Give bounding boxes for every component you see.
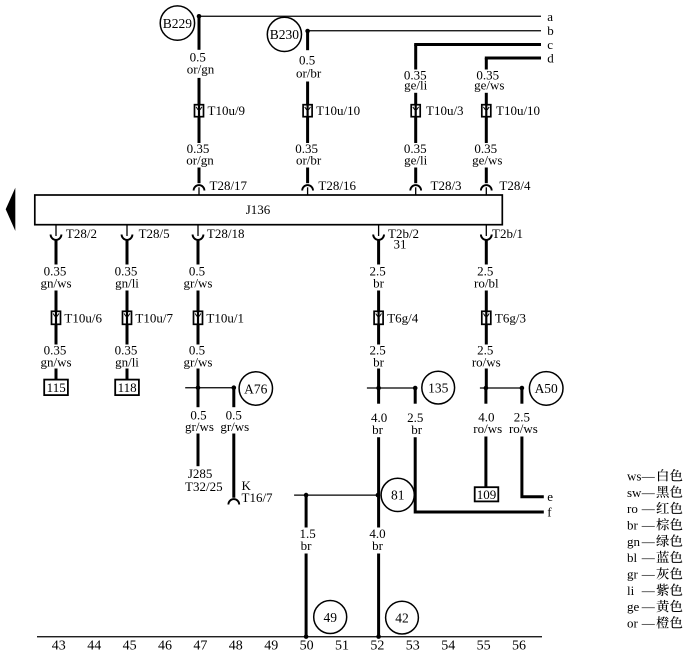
svg-text:A76: A76 (244, 381, 267, 396)
node junction T28/18 branch (196, 385, 201, 390)
wire 0.5 gr/ws to J285 lower (197, 434, 200, 467)
wire 2.5 br to terminal f (415, 437, 544, 512)
wire 0.5 or/gn upper segment (198, 16, 201, 50)
svg-text:—: — (641, 599, 656, 614)
wire 0.35 ge/ws upper segment (485, 58, 488, 70)
wire to ground 115 (55, 369, 58, 380)
wire to ground 118 (126, 369, 129, 380)
wire 0.5 gr/ws to K lower (232, 434, 235, 498)
junction line at node 135 branch (367, 387, 415, 389)
plug socket T28/2 (51, 225, 62, 240)
svg-text:T10u/9: T10u/9 (208, 103, 246, 118)
wire 4.0 br middle segment (377, 437, 380, 527)
svg-text:T6g/3: T6g/3 (495, 310, 526, 325)
wire 0.5 gr/ws to K upper (232, 388, 235, 408)
svg-text:T10u/10: T10u/10 (316, 103, 360, 118)
svg-text:gn/li: gn/li (115, 276, 139, 291)
svg-text:ro/ws: ro/ws (473, 421, 502, 436)
svg-text:T10u/7: T10u/7 (135, 310, 173, 325)
svg-text:55: 55 (477, 639, 491, 654)
svg-text:li: li (627, 583, 635, 598)
svg-text:49: 49 (323, 610, 337, 625)
control unit J136 (35, 195, 503, 225)
wire 2.5 ro/ws segment below connector (485, 324, 488, 344)
svg-text:T28/4: T28/4 (499, 178, 531, 193)
svg-text:—: — (641, 517, 656, 532)
svg-text:T10u/1: T10u/1 (206, 310, 244, 325)
svg-text:B230: B230 (270, 27, 300, 42)
svg-text:T2b/1: T2b/1 (492, 226, 523, 241)
svg-text:gn: gn (627, 534, 641, 549)
svg-text:a: a (547, 9, 553, 24)
wire 0.35 gn/li upper segment (126, 241, 129, 265)
svg-text:bl: bl (627, 550, 638, 565)
node junction on wire b (305, 29, 310, 34)
svg-text:49: 49 (264, 639, 278, 654)
connector T10u/6 (52, 311, 61, 324)
wire 4.0 br upper segment (377, 388, 380, 404)
svg-text:ge/ws: ge/ws (472, 153, 502, 168)
wire 0.35 gn/ws upper segment (55, 241, 58, 265)
svg-text:—: — (641, 534, 656, 549)
sensor B230 (267, 17, 301, 51)
svg-text:A50: A50 (535, 381, 558, 396)
node junction T2b/2 branch (376, 386, 381, 391)
svg-text:31: 31 (394, 236, 407, 251)
svg-text:115: 115 (47, 380, 66, 395)
node A76 (239, 372, 272, 405)
colour legend (627, 468, 682, 630)
svg-text:d: d (547, 51, 554, 66)
svg-text:53: 53 (406, 639, 420, 654)
junction line to 1.5 br branch (294, 494, 378, 496)
wire 0.35 ge/li upper segment (414, 45, 417, 70)
svg-text:gr/ws: gr/ws (220, 419, 249, 434)
wire 0.35 or/br lower segment (306, 168, 309, 184)
plug socket T28/18 (193, 225, 204, 240)
svg-text:ge/ws: ge/ws (474, 78, 504, 93)
svg-text:—: — (641, 501, 656, 516)
plug socket T28/5 (122, 225, 133, 240)
svg-text:44: 44 (87, 639, 101, 654)
wire 0.35 ge/li middle segment (414, 93, 417, 105)
svg-text:gn/ws: gn/ws (40, 355, 71, 370)
svg-text:T10u/3: T10u/3 (426, 103, 464, 118)
junction line at A76 branch (185, 387, 234, 389)
svg-text:br: br (627, 517, 639, 532)
wire 0.5 gr/ws to J285 upper (197, 388, 200, 408)
wire 4.0 br lower segment (377, 554, 380, 637)
svg-text:T28/3: T28/3 (431, 178, 462, 193)
svg-text:T6g/4: T6g/4 (387, 310, 419, 325)
plug socket T2b/1 (481, 225, 492, 240)
connector T10u/10 (303, 105, 312, 117)
wire 0.35 gn/li segment below connector (126, 324, 129, 344)
wire 2.5 br upper segment (377, 241, 380, 265)
svg-text:ws: ws (627, 468, 641, 483)
svg-text:gn/li: gn/li (115, 355, 139, 370)
node junction at track 52 (376, 634, 381, 639)
wire d (bus line to terminal d) (485, 57, 541, 60)
svg-text:T28/16: T28/16 (318, 178, 356, 193)
svg-text:b: b (547, 23, 554, 38)
current track rail (37, 636, 542, 638)
wire b (bus line to terminal b) (308, 30, 541, 32)
wire 0.5 or/br upper segment (306, 31, 309, 50)
svg-text:T28/17: T28/17 (210, 178, 248, 193)
svg-text:ge/li: ge/li (404, 153, 427, 168)
ground connection 118 (115, 380, 139, 396)
svg-text:ro/ws: ro/ws (472, 355, 501, 370)
wire 2.5 ro/ws to junction (485, 369, 488, 389)
svg-text:56: 56 (512, 639, 526, 654)
svg-text:gr/ws: gr/ws (185, 419, 214, 434)
wire 2.5 ro/bl upper segment (485, 241, 488, 265)
plug socket T28/3 (410, 185, 421, 195)
wire 2.5 br segment below connector (377, 324, 380, 344)
connector T6g/4 (374, 311, 383, 324)
svg-text:47: 47 (193, 639, 207, 654)
wire 2.5 br segment above connector (377, 291, 380, 312)
svg-text:51: 51 (335, 639, 349, 654)
connector T6g/3 (482, 311, 491, 324)
svg-text:T28/5: T28/5 (139, 226, 170, 241)
svg-text:118: 118 (118, 380, 137, 395)
svg-text:109: 109 (477, 487, 497, 502)
wire 0.5 or/gn lower segment (198, 78, 201, 105)
svg-text:T10u/10: T10u/10 (496, 103, 540, 118)
svg-text:br: br (301, 538, 313, 553)
svg-text:br: br (373, 355, 385, 370)
plug socket T28/4 (481, 185, 492, 195)
node A50 (529, 372, 563, 406)
svg-text:sw: sw (627, 485, 642, 500)
wire 0.35 gn/ws segment below connector (55, 324, 58, 344)
svg-text:or/gn: or/gn (187, 61, 215, 76)
svg-text:e: e (547, 489, 553, 504)
connector T10u/1 (194, 311, 203, 324)
node junction 1.5 br branch (304, 493, 309, 498)
svg-text:—: — (641, 485, 656, 500)
svg-text:gr: gr (627, 567, 639, 582)
svg-text:—: — (641, 550, 656, 565)
svg-text:ro/bl: ro/bl (474, 276, 499, 291)
wire 1.5 br upper segment (305, 495, 308, 527)
plug socket T28/17 (194, 185, 205, 195)
wire 2.5 br to junction (377, 369, 380, 389)
plug socket T28/16 (302, 185, 313, 195)
wire 1.5 br lower segment (305, 554, 308, 637)
connector T10u/7 (123, 311, 132, 324)
svg-text:48: 48 (229, 639, 243, 654)
current track numbers 43-56 (52, 639, 526, 654)
svg-text:br: br (372, 538, 384, 553)
svg-text:gn/ws: gn/ws (40, 276, 71, 291)
svg-text:ro/ws: ro/ws (509, 421, 538, 436)
node 81 (381, 478, 414, 511)
wire 0.5 gr/ws upper segment (197, 241, 200, 265)
current track label 42 (386, 601, 419, 634)
wire 0.5 gr/ws segment above connector (197, 291, 200, 312)
node junction 4.0 br wire (376, 493, 381, 498)
wire 0.5 gr/ws segment below connector (197, 324, 200, 344)
ground connection 109 (475, 487, 499, 502)
wire 0.35 ge/ws segment below connector (485, 117, 488, 143)
node junction 135 branch (413, 386, 418, 391)
connector T10u/9 (195, 105, 204, 117)
wire 0.35 ge/li lower segment (414, 168, 417, 184)
wire 2.5 br upper segment (414, 388, 417, 404)
wire 0.35 ge/ws lower segment (485, 168, 488, 184)
ground connection 115 (44, 380, 68, 396)
svg-text:or: or (627, 616, 639, 631)
node junction on wire a (197, 14, 202, 19)
svg-text:T28/2: T28/2 (66, 226, 97, 241)
plug socket T16/7 (228, 499, 239, 504)
svg-text:T28/18: T28/18 (207, 226, 245, 241)
wire c (bus line to terminal c) (414, 43, 541, 46)
wire 0.35 or/br upper segment (306, 117, 309, 143)
sensor B229 (160, 6, 194, 40)
svg-text:42: 42 (395, 610, 409, 625)
svg-text:ge/li: ge/li (404, 78, 427, 93)
svg-text:46: 46 (158, 639, 172, 654)
svg-text:gr/ws: gr/ws (184, 276, 213, 291)
svg-text:br: br (373, 276, 385, 291)
svg-text:43: 43 (52, 639, 66, 654)
svg-text:52: 52 (370, 639, 384, 654)
wire 0.35 or/gn upper segment (198, 117, 201, 143)
wire 0.35 ge/ws middle segment (485, 93, 488, 105)
svg-text:ro: ro (627, 501, 638, 516)
node junction T2b/1 branch (484, 386, 489, 391)
svg-text:—: — (641, 567, 656, 582)
svg-text:81: 81 (391, 488, 405, 503)
svg-text:T10u/6: T10u/6 (64, 310, 102, 325)
svg-text:T16/7: T16/7 (242, 490, 274, 505)
wire 2.5 ro/ws upper segment (520, 388, 523, 404)
svg-text:45: 45 (123, 639, 137, 654)
svg-text:—: — (641, 616, 656, 631)
svg-text:54: 54 (441, 639, 455, 654)
node junction A76 branch (232, 385, 237, 390)
wire 4.0 ro/ws upper segment (484, 388, 487, 404)
connector T10u/10 (482, 105, 491, 117)
plug socket T2b/2 (373, 225, 384, 240)
wire 0.35 ge/li segment below connector (414, 117, 417, 143)
connector T10u/3 (411, 105, 420, 117)
svg-text:ge: ge (627, 599, 640, 614)
wire 0.5 or/br lower segment (306, 82, 309, 105)
svg-text:—: — (641, 468, 656, 483)
wire 0.35 gn/li segment above connector (126, 291, 129, 312)
current track label 49 (314, 601, 347, 634)
svg-text:J136: J136 (246, 202, 271, 217)
svg-text:f: f (547, 505, 552, 520)
continuation arrow (6, 188, 16, 231)
node 135 (422, 371, 455, 404)
node junction A50 branch (520, 386, 525, 391)
svg-text:or/br: or/br (296, 153, 322, 168)
wire a (bus line to terminal a) (199, 15, 541, 17)
svg-text:br: br (372, 422, 384, 437)
wire 2.5 ro/ws to terminal e (522, 437, 544, 497)
wire 0.35 gn/ws segment above connector (55, 291, 58, 312)
wire 0.35 or/gn lower segment (198, 168, 201, 184)
junction line at A50 branch (480, 387, 522, 389)
svg-text:50: 50 (300, 639, 314, 654)
svg-text:—: — (641, 583, 656, 598)
svg-text:br: br (411, 422, 423, 437)
wire 0.5 gr/ws to junction (197, 369, 200, 388)
node junction at track 50 (304, 634, 309, 639)
svg-text:B229: B229 (163, 16, 193, 31)
wire 2.5 ro/bl segment above connector (485, 291, 488, 312)
svg-text:gr/ws: gr/ws (184, 355, 213, 370)
wire 4.0 ro/ws lower segment (484, 437, 487, 488)
svg-text:T32/25: T32/25 (185, 479, 223, 494)
svg-text:or/br: or/br (296, 66, 322, 81)
svg-text:or/gn: or/gn (186, 153, 214, 168)
svg-text:135: 135 (428, 380, 449, 395)
